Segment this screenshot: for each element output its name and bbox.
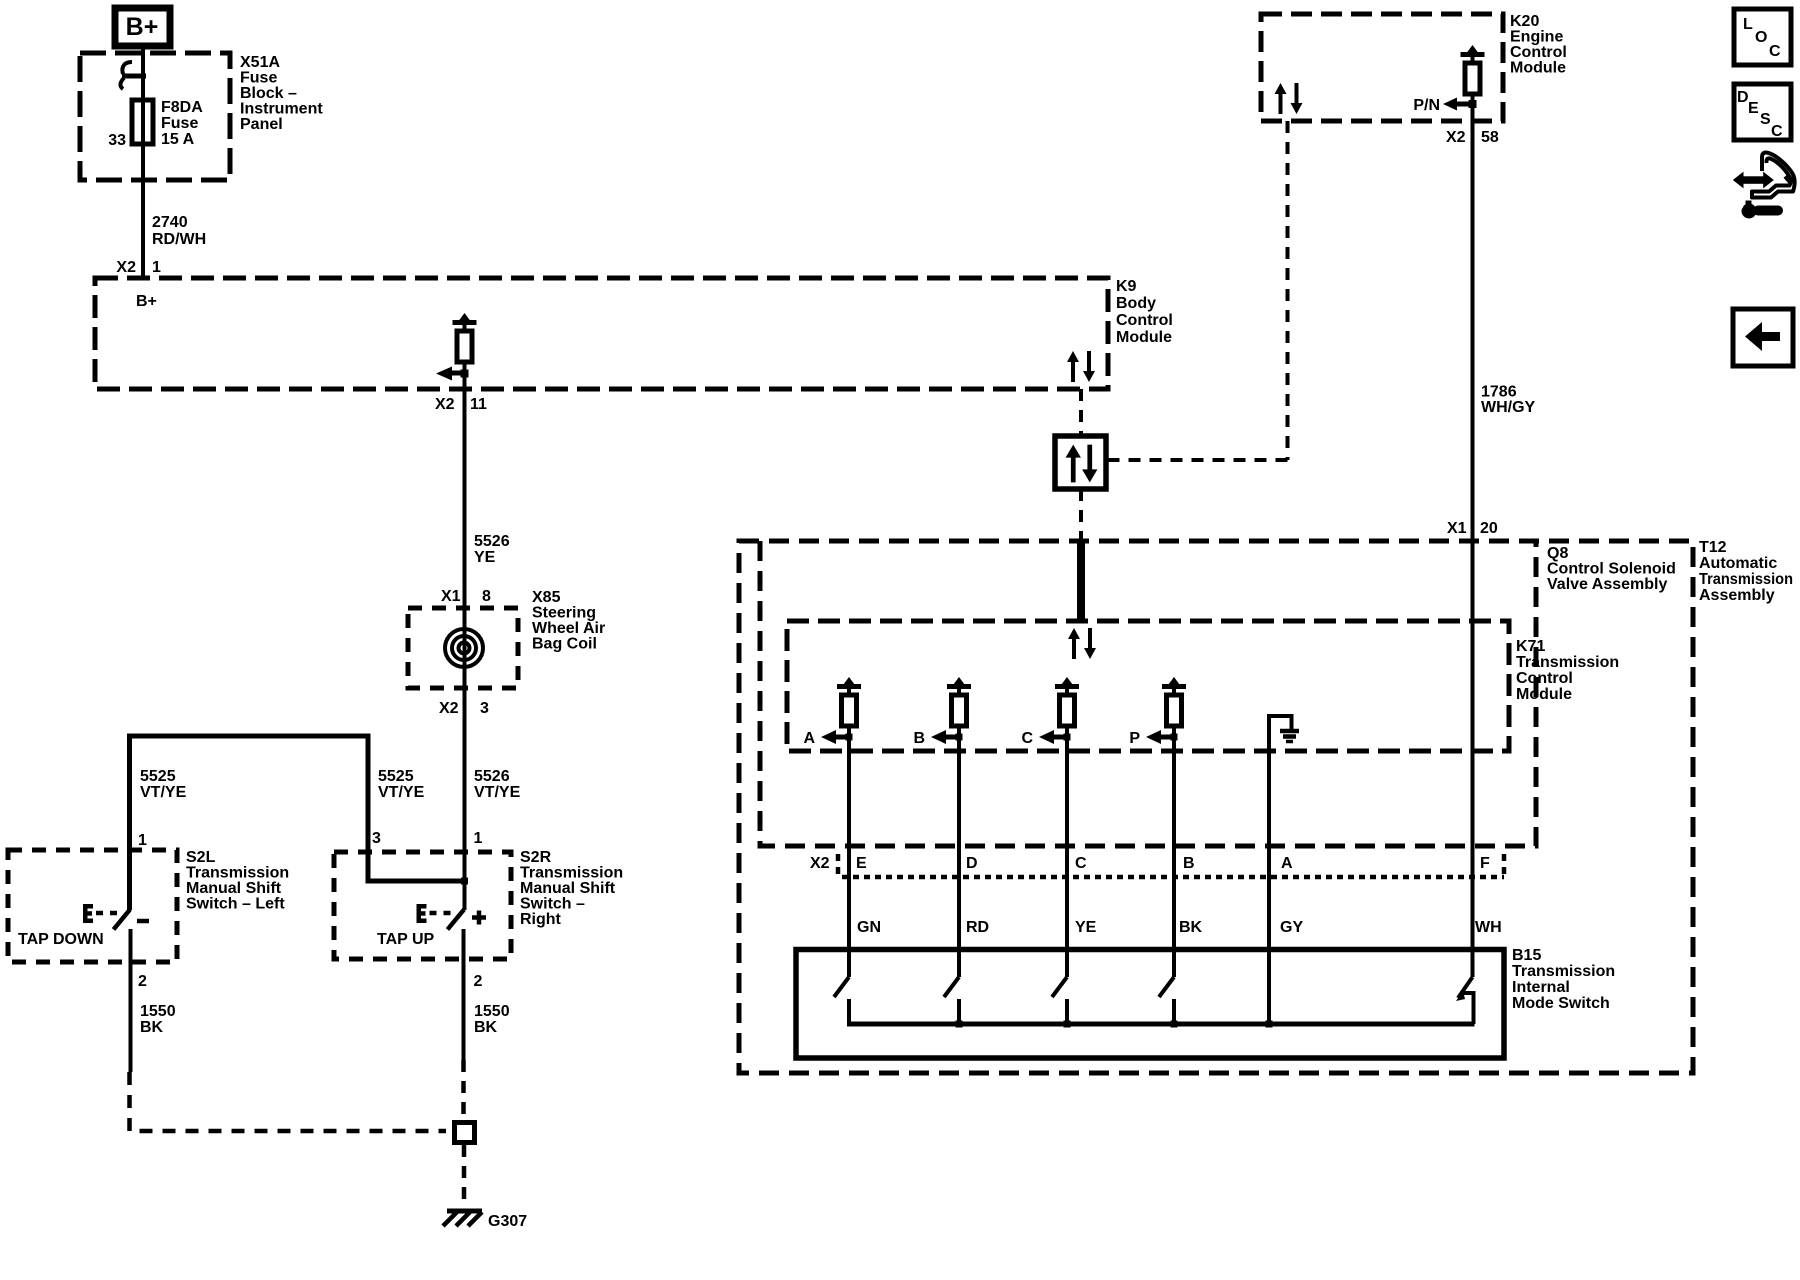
svg-text:Manual Shift: Manual Shift	[186, 880, 282, 897]
svg-text:Fuse: Fuse	[161, 115, 198, 132]
svg-text:RD: RD	[966, 919, 989, 936]
svg-text:D: D	[1737, 89, 1749, 106]
svg-text:VT/YE: VT/YE	[378, 784, 425, 801]
svg-text:X2: X2	[439, 700, 459, 717]
svg-text:Transmission: Transmission	[520, 865, 623, 882]
svg-text:D: D	[966, 855, 978, 872]
svg-text:Assembly: Assembly	[1699, 587, 1775, 604]
svg-text:TAP DOWN: TAP DOWN	[18, 931, 104, 948]
svg-text:Internal: Internal	[1512, 979, 1570, 996]
svg-text:33: 33	[108, 132, 126, 149]
svg-text:YE: YE	[474, 549, 496, 566]
svg-text:WH: WH	[1475, 919, 1502, 936]
svg-text:G307: G307	[488, 1213, 527, 1230]
svg-text:11: 11	[470, 396, 487, 413]
svg-text:X2: X2	[1446, 129, 1466, 146]
svg-text:Transmission: Transmission	[1699, 571, 1793, 588]
svg-text:5525: 5525	[378, 768, 414, 785]
svg-text:Module: Module	[1516, 686, 1572, 703]
svg-text:E: E	[856, 855, 867, 872]
svg-text:Engine: Engine	[1510, 29, 1563, 46]
svg-text:X85: X85	[532, 589, 561, 606]
svg-text:YE: YE	[1075, 919, 1097, 936]
svg-text:Transmission: Transmission	[186, 865, 289, 882]
svg-text:Module: Module	[1510, 60, 1566, 77]
svg-text:GN: GN	[857, 919, 881, 936]
svg-text:Module: Module	[1116, 329, 1172, 346]
svg-text:Automatic: Automatic	[1699, 555, 1777, 572]
svg-text:P: P	[1129, 730, 1140, 747]
svg-text:S2L: S2L	[186, 849, 216, 866]
svg-text:Block –: Block –	[240, 85, 297, 102]
svg-text:VT/YE: VT/YE	[140, 784, 187, 801]
svg-text:Control: Control	[1116, 312, 1173, 329]
svg-text:15 A: 15 A	[161, 131, 195, 148]
svg-text:P/N: P/N	[1413, 97, 1440, 114]
svg-text:Control: Control	[1516, 670, 1573, 687]
svg-text:Bag Coil: Bag Coil	[532, 636, 597, 653]
svg-text:X2: X2	[116, 259, 136, 276]
svg-text:Instrument: Instrument	[240, 101, 323, 118]
svg-text:RD/WH: RD/WH	[152, 231, 206, 248]
svg-text:C: C	[1769, 43, 1781, 60]
svg-text:Body: Body	[1116, 295, 1156, 312]
svg-text:Transmission: Transmission	[1512, 963, 1615, 980]
svg-text:Control: Control	[1510, 44, 1567, 61]
svg-text:T12: T12	[1699, 539, 1727, 556]
svg-text:L: L	[1743, 16, 1753, 33]
svg-text:Control Solenoid: Control Solenoid	[1547, 561, 1676, 578]
svg-text:X51A: X51A	[240, 54, 280, 71]
svg-text:A: A	[803, 730, 815, 747]
svg-text:X2: X2	[435, 396, 455, 413]
svg-text:B+: B+	[126, 13, 159, 41]
svg-text:5525: 5525	[140, 768, 176, 785]
svg-text:1: 1	[474, 830, 483, 847]
svg-text:WH/GY: WH/GY	[1481, 399, 1536, 416]
svg-text:BK: BK	[1179, 919, 1203, 936]
svg-text:B15: B15	[1512, 947, 1541, 964]
svg-text:X2: X2	[810, 855, 830, 872]
svg-text:1786: 1786	[1481, 384, 1517, 401]
svg-text:K20: K20	[1510, 13, 1539, 30]
svg-text:Valve Assembly: Valve Assembly	[1547, 576, 1667, 593]
svg-text:X1: X1	[1447, 520, 1467, 537]
svg-text:S2R: S2R	[520, 849, 552, 866]
svg-text:K71: K71	[1516, 638, 1545, 655]
svg-text:Switch – Left: Switch – Left	[186, 896, 285, 913]
svg-text:C: C	[1075, 855, 1087, 872]
svg-text:Panel: Panel	[240, 116, 283, 133]
svg-text:C: C	[1021, 730, 1033, 747]
svg-text:TAP UP: TAP UP	[377, 931, 435, 948]
svg-text:8: 8	[482, 588, 491, 605]
svg-text:B+: B+	[136, 293, 157, 310]
svg-text:2740: 2740	[152, 214, 188, 231]
svg-text:Switch –: Switch –	[520, 896, 585, 913]
svg-text:1550: 1550	[140, 1003, 176, 1020]
svg-text:Mode Switch: Mode Switch	[1512, 995, 1610, 1012]
svg-text:F8DA: F8DA	[161, 99, 203, 116]
svg-text:B: B	[913, 730, 925, 747]
svg-text:20: 20	[1480, 520, 1498, 537]
svg-text:58: 58	[1481, 129, 1499, 146]
svg-text:C: C	[1771, 123, 1783, 140]
svg-text:2: 2	[138, 973, 147, 990]
svg-text:Manual Shift: Manual Shift	[520, 880, 616, 897]
svg-text:1: 1	[152, 259, 161, 276]
svg-text:Wheel Air: Wheel Air	[532, 620, 605, 637]
svg-text:S: S	[1760, 111, 1771, 128]
svg-text:E: E	[1748, 100, 1759, 117]
svg-text:Transmission: Transmission	[1516, 654, 1619, 671]
svg-text:3: 3	[372, 830, 381, 847]
svg-text:Right: Right	[520, 911, 562, 928]
svg-text:3: 3	[480, 700, 489, 717]
svg-text:VT/YE: VT/YE	[474, 784, 521, 801]
svg-text:O: O	[1755, 29, 1767, 46]
svg-text:1: 1	[138, 832, 147, 849]
svg-text:Q8: Q8	[1547, 545, 1568, 562]
svg-text:1550: 1550	[474, 1003, 510, 1020]
svg-text:2: 2	[474, 973, 483, 990]
svg-text:F: F	[1480, 855, 1490, 872]
svg-text:GY: GY	[1280, 919, 1303, 936]
svg-text:5526: 5526	[474, 533, 510, 550]
svg-text:BK: BK	[474, 1019, 498, 1036]
svg-text:Steering: Steering	[532, 605, 596, 622]
svg-text:K9: K9	[1116, 278, 1137, 295]
svg-text:X1: X1	[441, 588, 461, 605]
svg-text:BK: BK	[140, 1019, 164, 1036]
svg-text:Fuse: Fuse	[240, 70, 277, 87]
svg-text:B: B	[1183, 855, 1195, 872]
svg-text:5526: 5526	[474, 768, 510, 785]
svg-text:A: A	[1281, 855, 1293, 872]
